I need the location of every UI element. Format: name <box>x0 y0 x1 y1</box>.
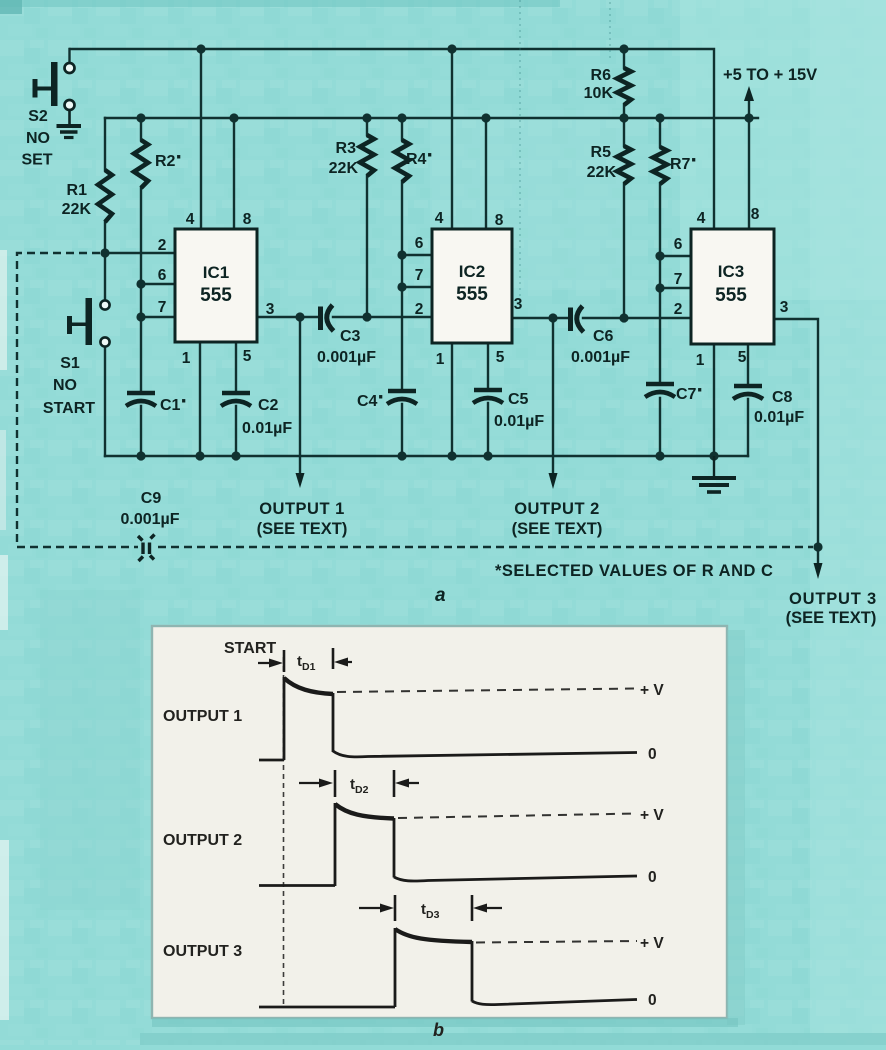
svg-text:0: 0 <box>648 992 657 1009</box>
svg-text:OUTPUT 2: OUTPUT 2 <box>514 500 600 518</box>
svg-text:0: 0 <box>648 869 657 886</box>
resistor R1 <box>98 170 112 222</box>
svg-text:7: 7 <box>415 267 424 284</box>
svg-text:7: 7 <box>674 271 683 288</box>
wire R4 branch x=402 <box>401 118 403 456</box>
+V dashed level 3 <box>476 941 637 943</box>
svg-text:C9: C9 <box>141 490 162 507</box>
svg-text:6: 6 <box>158 267 167 284</box>
svg-text:R5: R5 <box>591 144 612 161</box>
wire S2 stub to top rail <box>68 49 70 62</box>
svg-text:3: 3 <box>266 301 275 318</box>
wire C3 to IC2 pin2 <box>333 316 432 318</box>
svg-text:22K: 22K <box>587 164 617 181</box>
IC3 555 <box>691 229 774 344</box>
resistor R2 <box>134 140 148 188</box>
svg-text:OUTPUT 3: OUTPUT 3 <box>789 590 877 608</box>
resistor R4 <box>395 140 409 182</box>
capacitor C8 <box>733 386 763 399</box>
switch S1 NO <box>67 298 110 347</box>
svg-text:OUTPUT 1: OUTPUT 1 <box>163 708 242 725</box>
capacitor C4 <box>387 391 417 404</box>
supply arrow +5 to +15V <box>744 86 754 101</box>
timing diagram panel <box>152 626 745 1027</box>
wire IC2 pin1 drop <box>451 343 453 456</box>
svg-text:1: 1 <box>696 352 705 369</box>
ground at IC3 pin1 <box>692 456 736 492</box>
svg-text:1: 1 <box>436 351 445 368</box>
wire IC1 pin3 to C3 node <box>257 316 318 318</box>
waveform output3 <box>259 895 637 1007</box>
schematic text labels <box>21 66 877 627</box>
svg-text:OUTPUT 1: OUTPUT 1 <box>259 500 345 518</box>
svg-text:4: 4 <box>697 210 706 227</box>
svg-text:555: 555 <box>200 285 232 306</box>
svg-text:5: 5 <box>496 349 505 366</box>
resistor R3 <box>360 135 374 176</box>
svg-text:0.01µF: 0.01µF <box>242 420 292 437</box>
svg-text:8: 8 <box>751 206 760 223</box>
svg-text:555: 555 <box>456 284 488 305</box>
capacitor C5 <box>473 390 503 403</box>
resistor R5 <box>617 146 631 184</box>
svg-text:S2: S2 <box>28 108 48 125</box>
start arrow <box>258 662 276 664</box>
svg-text:SET: SET <box>21 152 52 169</box>
svg-text:IC2: IC2 <box>459 262 485 281</box>
switch S2 NO <box>33 62 75 110</box>
wire IC3 pin3 to output3 <box>774 319 818 563</box>
capacitor C1 <box>126 393 156 406</box>
+V dashed level 2 <box>398 814 637 819</box>
svg-text:S1: S1 <box>60 355 80 372</box>
svg-text:8: 8 <box>495 212 504 229</box>
tD1 arrows <box>340 661 352 663</box>
wire ground rail <box>105 455 748 457</box>
+V dashed level 1 <box>337 689 637 693</box>
svg-text:OUTPUT 3: OUTPUT 3 <box>163 943 242 960</box>
tD2 arrows <box>299 782 419 784</box>
svg-text:3: 3 <box>780 299 789 316</box>
wire IC1 pin7 stub <box>141 316 175 318</box>
svg-text:5: 5 <box>243 348 252 365</box>
wire R2 branch x=141 <box>140 118 142 456</box>
wire C6 to IC3 pin2 <box>583 317 691 319</box>
svg-text:4: 4 <box>186 211 195 228</box>
svg-text:(SEE TEXT): (SEE TEXT) <box>257 520 348 538</box>
svg-text:22K: 22K <box>329 160 359 177</box>
svg-text:0.01µF: 0.01µF <box>754 409 804 426</box>
wire IC3 pin1 drop <box>713 344 715 456</box>
capacitor C7 <box>645 384 675 397</box>
svg-text:a: a <box>435 585 446 606</box>
svg-text:2: 2 <box>158 237 167 254</box>
ground under S2 <box>57 110 82 138</box>
capacitor C6 <box>571 306 584 332</box>
svg-text:C6: C6 <box>593 328 614 345</box>
wire IC2 pin3 to C6 node <box>512 317 568 319</box>
svg-text:+ V: + V <box>640 682 664 699</box>
svg-text:b: b <box>433 1020 444 1040</box>
svg-text:+ V: + V <box>640 807 664 824</box>
output3 arrow <box>814 563 823 579</box>
svg-text:+ V: + V <box>640 935 664 952</box>
svg-text:+5 TO + 15V: +5 TO + 15V <box>723 66 817 84</box>
timing diagram labels <box>163 640 664 1040</box>
IC2 555 <box>432 229 512 343</box>
svg-text:C8: C8 <box>772 389 793 406</box>
wire R7 branch x=660 <box>659 118 661 456</box>
wire IC1 pin1 drop <box>199 342 201 456</box>
wire VCC rail <box>105 117 758 119</box>
svg-text:0.001µF: 0.001µF <box>571 349 630 366</box>
svg-text:(SEE TEXT): (SEE TEXT) <box>786 609 877 627</box>
wire IC1 pin8 drop <box>233 118 235 229</box>
svg-text:C3: C3 <box>340 328 361 345</box>
svg-text:3: 3 <box>514 296 523 313</box>
wire IC3 pin8 drop and supply stub <box>748 100 750 229</box>
wire IC1 pin5 / C2 branch <box>235 342 237 456</box>
wire IC2 pin7 stub <box>402 286 432 288</box>
wire IC2 pin5 / C5 branch <box>487 343 489 456</box>
svg-text:1: 1 <box>182 350 191 367</box>
svg-text:IC3: IC3 <box>718 262 744 281</box>
svg-text:10K: 10K <box>584 85 614 102</box>
svg-text:0.001µF: 0.001µF <box>120 511 179 528</box>
capacitor C2 <box>221 393 251 406</box>
wire IC3 pin6 stub <box>660 255 691 257</box>
IC2 pin numbers <box>415 210 523 368</box>
waveform output1 <box>259 648 637 760</box>
svg-text:0.001µF: 0.001µF <box>317 349 376 366</box>
wire IC3 pin5 / C8 branch <box>747 344 749 456</box>
IC3 pin numbers <box>674 206 789 369</box>
faint scan fold lines <box>520 0 610 300</box>
wire IC2 pin4 drop <box>451 49 453 229</box>
svg-text:R1: R1 <box>67 182 88 199</box>
svg-text:5: 5 <box>738 349 747 366</box>
svg-text:555: 555 <box>715 285 747 306</box>
capacitor C3 <box>321 305 334 331</box>
svg-text:0.01µF: 0.01µF <box>494 413 544 430</box>
wire R1 branch (VCC corner to pin2 node) <box>104 118 106 253</box>
wire IC1 pin6 stub <box>141 283 175 285</box>
wire R6 branch between rails <box>623 49 625 118</box>
wire R3 branch x=367 <box>366 118 368 317</box>
svg-text:C2: C2 <box>258 397 279 414</box>
svg-text:4: 4 <box>435 210 444 227</box>
svg-text:NO: NO <box>26 130 50 147</box>
resistor R6 <box>617 68 631 105</box>
svg-text:22K: 22K <box>62 201 92 218</box>
output1 arrow <box>296 473 305 488</box>
wire R5 branch x=624 <box>623 118 625 318</box>
wire IC2 pin6 stub <box>402 254 432 256</box>
svg-text:C5: C5 <box>508 391 529 408</box>
capacitor C9 (dashed-line series cap) <box>138 535 155 562</box>
wire output2 vertical <box>552 318 554 474</box>
svg-text:START: START <box>43 400 95 417</box>
timing arrowheads <box>269 658 487 913</box>
svg-text:6: 6 <box>674 236 683 253</box>
wire IC1 pin2 line <box>105 252 175 254</box>
wire IC2 pin8 drop <box>485 118 487 229</box>
waveform output2 <box>259 770 637 886</box>
svg-text:(SEE TEXT): (SEE TEXT) <box>512 520 603 538</box>
svg-text:OUTPUT 2: OUTPUT 2 <box>163 832 242 849</box>
wire top rail <box>70 49 714 229</box>
svg-text:NO: NO <box>53 377 77 394</box>
IC1 pin numbers <box>158 211 275 367</box>
svg-text:*SELECTED VALUES OF R AND C: *SELECTED VALUES OF R AND C <box>495 562 773 580</box>
wire IC1 pin4 drop <box>200 49 202 229</box>
svg-text:R3: R3 <box>336 140 357 157</box>
svg-text:IC1: IC1 <box>203 263 229 282</box>
start dashed vertical <box>283 657 285 1007</box>
timing diagram contents <box>258 648 637 1007</box>
svg-text:8: 8 <box>243 211 252 228</box>
wire output1 vertical <box>299 317 301 474</box>
tD3 arrows <box>359 907 502 909</box>
output2 arrow <box>549 473 558 489</box>
svg-text:0: 0 <box>648 746 657 763</box>
svg-text:2: 2 <box>674 301 683 318</box>
dashed feedback loop through C9 <box>17 253 813 547</box>
wire S1 leads <box>104 253 106 456</box>
resistor R7 <box>653 147 667 184</box>
svg-text:R6: R6 <box>591 67 612 84</box>
svg-text:START: START <box>224 640 276 657</box>
svg-text:7: 7 <box>158 299 167 316</box>
svg-text:2: 2 <box>415 301 424 318</box>
IC1 555 <box>175 229 257 342</box>
wire IC3 pin7 stub <box>660 287 691 289</box>
svg-text:6: 6 <box>415 235 424 252</box>
